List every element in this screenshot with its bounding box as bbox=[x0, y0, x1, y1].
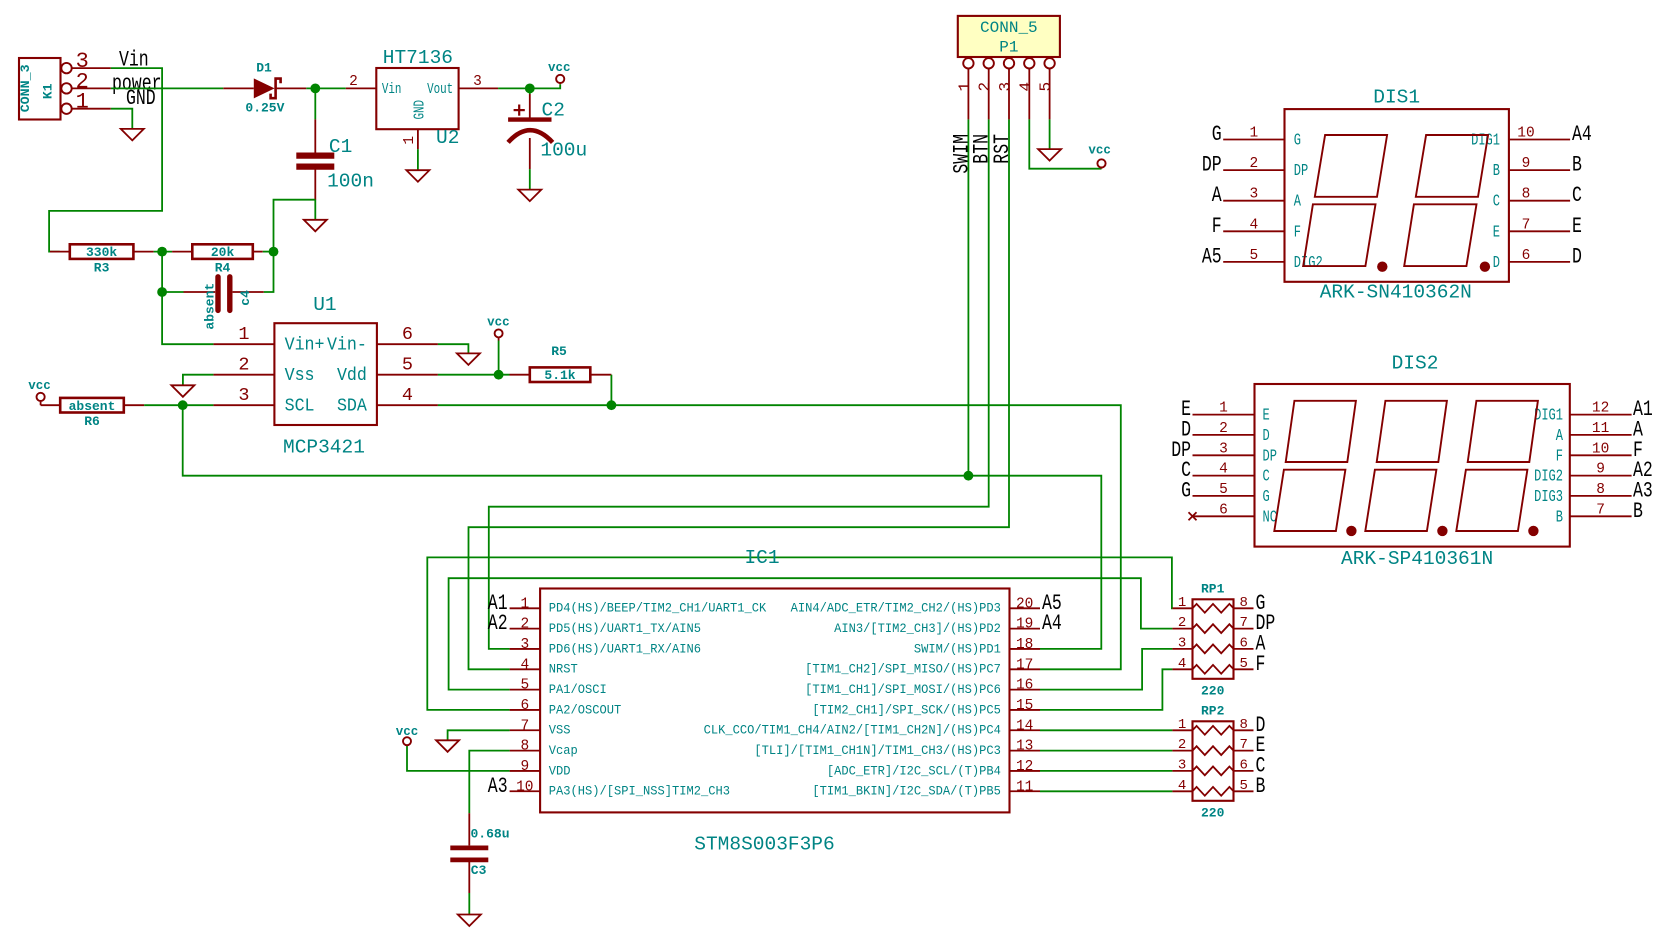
svg-text:vcc: vcc bbox=[548, 61, 571, 75]
svg-text:absent: absent bbox=[203, 283, 218, 330]
svg-text:2: 2 bbox=[1250, 156, 1259, 172]
svg-text:[TLI]/[TIM1_CH1N]/TIM1_CH3/(HS: [TLI]/[TIM1_CH1N]/TIM1_CH3/(HS)PC3 bbox=[754, 744, 1001, 758]
svg-text:220: 220 bbox=[1201, 806, 1225, 821]
svg-text:VDD: VDD bbox=[549, 764, 571, 778]
svg-text:PD5(HS)/UART1_TX/AIN5: PD5(HS)/UART1_TX/AIN5 bbox=[549, 622, 701, 636]
svg-text:E: E bbox=[1572, 214, 1582, 239]
svg-text:19: 19 bbox=[1016, 617, 1033, 633]
svg-text:9: 9 bbox=[1522, 156, 1531, 172]
svg-text:ARK-SN410362N: ARK-SN410362N bbox=[1320, 282, 1472, 304]
svg-text:SWIM/(HS)PD1: SWIM/(HS)PD1 bbox=[914, 642, 1001, 656]
svg-text:SDA: SDA bbox=[337, 396, 367, 417]
svg-text:R4: R4 bbox=[215, 261, 231, 276]
svg-text:11: 11 bbox=[1016, 779, 1033, 795]
svg-text:DIS1: DIS1 bbox=[1373, 87, 1420, 109]
svg-text:RP1: RP1 bbox=[1201, 582, 1225, 597]
svg-text:7: 7 bbox=[1596, 502, 1605, 518]
svg-text:A: A bbox=[1212, 183, 1222, 208]
svg-text:4: 4 bbox=[1017, 82, 1035, 92]
svg-text:8: 8 bbox=[1596, 482, 1605, 498]
svg-text:16: 16 bbox=[1016, 678, 1033, 694]
svg-text:14: 14 bbox=[1016, 718, 1033, 734]
svg-text:D: D bbox=[1263, 427, 1270, 445]
svg-text:4: 4 bbox=[1178, 778, 1186, 794]
svg-text:8: 8 bbox=[1239, 717, 1247, 733]
svg-text:PA2/OSCOUT: PA2/OSCOUT bbox=[549, 703, 622, 717]
svg-text:Vdd: Vdd bbox=[337, 365, 367, 386]
svg-text:A4: A4 bbox=[1572, 122, 1592, 147]
svg-text:DIS2: DIS2 bbox=[1392, 353, 1439, 375]
svg-text:P1: P1 bbox=[999, 39, 1018, 57]
svg-text:F: F bbox=[1212, 214, 1222, 239]
svg-text:DP: DP bbox=[1294, 163, 1308, 181]
svg-text:A: A bbox=[1294, 193, 1302, 211]
svg-text:vcc: vcc bbox=[28, 379, 51, 393]
svg-text:1: 1 bbox=[1178, 595, 1186, 611]
svg-text:DIG3: DIG3 bbox=[1534, 488, 1563, 506]
svg-text:C: C bbox=[1493, 193, 1501, 211]
svg-text:GND: GND bbox=[126, 86, 156, 111]
svg-text:330k: 330k bbox=[86, 245, 117, 260]
svg-text:18: 18 bbox=[1016, 637, 1033, 653]
svg-text:1: 1 bbox=[956, 82, 974, 92]
svg-text:2: 2 bbox=[1178, 737, 1186, 753]
svg-text:12: 12 bbox=[1592, 401, 1609, 417]
svg-text:1: 1 bbox=[1219, 401, 1228, 417]
svg-text:G: G bbox=[1263, 488, 1270, 506]
svg-text:RP2: RP2 bbox=[1201, 704, 1225, 719]
svg-text:6: 6 bbox=[520, 698, 529, 714]
svg-text:R5: R5 bbox=[551, 344, 567, 359]
svg-text:Vin: Vin bbox=[382, 81, 402, 98]
svg-text:Vss: Vss bbox=[285, 365, 315, 386]
svg-text:PA3(HS)/[SPI_NSS]TIM2_CH3: PA3(HS)/[SPI_NSS]TIM2_CH3 bbox=[549, 784, 730, 798]
svg-text:B: B bbox=[1556, 509, 1564, 527]
svg-text:1: 1 bbox=[402, 136, 418, 145]
svg-text:7: 7 bbox=[1239, 615, 1247, 631]
svg-text:4: 4 bbox=[402, 385, 413, 406]
svg-text:1: 1 bbox=[1178, 717, 1186, 733]
svg-text:[TIM2_CH1]/SPI_SCK/(HS)PC5: [TIM2_CH1]/SPI_SCK/(HS)PC5 bbox=[812, 703, 1001, 717]
svg-text:[ADC_ETR]/I2C_SCL/(T)PB4: [ADC_ETR]/I2C_SCL/(T)PB4 bbox=[827, 764, 1001, 778]
svg-text:K1: K1 bbox=[40, 83, 55, 99]
svg-text:AIN4/ADC_ETR/TIM2_CH2/(HS)PD3: AIN4/ADC_ETR/TIM2_CH2/(HS)PD3 bbox=[791, 601, 1001, 615]
svg-text:F: F bbox=[1256, 652, 1266, 677]
svg-text:1: 1 bbox=[76, 90, 89, 115]
svg-text:DP: DP bbox=[1263, 448, 1277, 466]
svg-text:IC1: IC1 bbox=[744, 547, 779, 569]
svg-text:3: 3 bbox=[1219, 441, 1228, 457]
svg-text:5: 5 bbox=[402, 355, 413, 376]
svg-text:RST: RST bbox=[990, 134, 1015, 164]
svg-text:7: 7 bbox=[1239, 737, 1247, 753]
svg-text:U1: U1 bbox=[313, 294, 336, 316]
svg-text:4: 4 bbox=[1219, 462, 1228, 478]
svg-text:10: 10 bbox=[516, 779, 533, 795]
svg-text:8: 8 bbox=[1239, 595, 1247, 611]
svg-text:5: 5 bbox=[1037, 82, 1055, 92]
svg-text:6: 6 bbox=[1522, 248, 1531, 264]
svg-text:B: B bbox=[1493, 163, 1501, 181]
svg-text:4: 4 bbox=[1250, 217, 1259, 233]
svg-text:Vcap: Vcap bbox=[549, 744, 578, 758]
svg-text:G: G bbox=[1212, 122, 1222, 147]
svg-text:E: E bbox=[1493, 224, 1500, 242]
svg-text:HT7136: HT7136 bbox=[383, 47, 453, 69]
svg-text:B: B bbox=[1256, 774, 1266, 799]
svg-text:AIN3/[TIM2_CH3]/(HS)PD2: AIN3/[TIM2_CH3]/(HS)PD2 bbox=[834, 622, 1001, 636]
svg-text:DIG1: DIG1 bbox=[1534, 407, 1563, 425]
svg-text:C3: C3 bbox=[471, 863, 487, 878]
svg-text:CONN_5: CONN_5 bbox=[980, 19, 1038, 37]
svg-text:4: 4 bbox=[520, 657, 529, 673]
svg-text:2: 2 bbox=[976, 82, 994, 92]
svg-text:0.68u: 0.68u bbox=[471, 827, 510, 842]
svg-text:2: 2 bbox=[1219, 421, 1228, 437]
svg-text:Vin-: Vin- bbox=[327, 335, 367, 356]
svg-text:6: 6 bbox=[1239, 757, 1247, 773]
svg-text:8: 8 bbox=[520, 739, 529, 755]
svg-text:C: C bbox=[1572, 183, 1582, 208]
svg-text:Vout: Vout bbox=[427, 81, 453, 98]
svg-text:1: 1 bbox=[520, 596, 529, 612]
svg-text:STM8S003F3P6: STM8S003F3P6 bbox=[694, 834, 834, 856]
svg-text:C2: C2 bbox=[542, 99, 565, 121]
svg-text:PD6(HS)/UART1_RX/AIN6: PD6(HS)/UART1_RX/AIN6 bbox=[549, 642, 701, 656]
svg-text:CLK_CCO/TIM1_CH4/AIN2/[TIM1_CH: CLK_CCO/TIM1_CH4/AIN2/[TIM1_CH2N]/(HS)PC… bbox=[704, 723, 1001, 737]
svg-text:5: 5 bbox=[1239, 778, 1247, 794]
svg-text:F: F bbox=[1294, 224, 1301, 242]
svg-text:20k: 20k bbox=[211, 245, 235, 260]
svg-text:C1: C1 bbox=[329, 136, 352, 158]
svg-text:ARK-SP410361N: ARK-SP410361N bbox=[1341, 548, 1493, 570]
svg-text:G: G bbox=[1294, 132, 1301, 150]
svg-text:vcc: vcc bbox=[396, 725, 419, 739]
svg-text:9: 9 bbox=[1596, 462, 1605, 478]
svg-text:vcc: vcc bbox=[1088, 144, 1111, 158]
svg-text:A3: A3 bbox=[488, 774, 508, 799]
svg-text:DIG2: DIG2 bbox=[1534, 468, 1563, 486]
svg-text:CONN_3: CONN_3 bbox=[18, 64, 33, 112]
svg-text:6: 6 bbox=[1219, 502, 1228, 518]
svg-text:[TIM1_CH1]/SPI_MOSI/(HS)PC6: [TIM1_CH1]/SPI_MOSI/(HS)PC6 bbox=[805, 683, 1001, 697]
svg-text:G: G bbox=[1181, 478, 1191, 503]
svg-text:NRST: NRST bbox=[549, 662, 578, 676]
svg-text:SCL: SCL bbox=[285, 396, 315, 417]
svg-text:5: 5 bbox=[1250, 248, 1259, 264]
svg-text:20: 20 bbox=[1016, 596, 1033, 612]
svg-text:A2: A2 bbox=[488, 611, 508, 636]
svg-text:2: 2 bbox=[349, 74, 358, 90]
svg-text:Vin+: Vin+ bbox=[285, 335, 325, 356]
svg-text:A4: A4 bbox=[1042, 611, 1062, 636]
svg-text:10: 10 bbox=[1517, 126, 1534, 142]
svg-text:GND: GND bbox=[411, 100, 428, 120]
svg-text:2: 2 bbox=[238, 355, 249, 376]
svg-text:2: 2 bbox=[1178, 615, 1186, 631]
svg-text:DP: DP bbox=[1202, 152, 1222, 177]
svg-text:7: 7 bbox=[520, 718, 529, 734]
svg-text:B: B bbox=[1633, 499, 1643, 524]
svg-text:D: D bbox=[1493, 254, 1500, 272]
svg-text:6: 6 bbox=[1239, 635, 1247, 651]
svg-text:5: 5 bbox=[1219, 482, 1228, 498]
svg-text:3: 3 bbox=[473, 74, 482, 90]
svg-text:U2: U2 bbox=[436, 127, 459, 149]
svg-text:R6: R6 bbox=[84, 414, 100, 429]
svg-text:100u: 100u bbox=[540, 140, 587, 162]
svg-text:13: 13 bbox=[1016, 739, 1033, 755]
svg-text:2: 2 bbox=[520, 617, 529, 633]
svg-text:3: 3 bbox=[238, 385, 249, 406]
svg-text:3: 3 bbox=[520, 637, 529, 653]
svg-text:5.1k: 5.1k bbox=[544, 368, 575, 383]
svg-text:R3: R3 bbox=[94, 261, 110, 276]
svg-text:3: 3 bbox=[1178, 635, 1186, 651]
svg-text:8: 8 bbox=[1522, 187, 1531, 203]
svg-text:c4: c4 bbox=[238, 290, 253, 306]
svg-text:10: 10 bbox=[1592, 441, 1609, 457]
svg-text:[TIM1_CH2]/SPI_MISO/(HS)PC7: [TIM1_CH2]/SPI_MISO/(HS)PC7 bbox=[805, 662, 1001, 676]
svg-text:100n: 100n bbox=[327, 171, 374, 193]
svg-text:B: B bbox=[1572, 152, 1582, 177]
svg-text:12: 12 bbox=[1016, 759, 1033, 775]
svg-text:11: 11 bbox=[1592, 421, 1609, 437]
svg-text:vcc: vcc bbox=[487, 316, 510, 330]
svg-text:C: C bbox=[1263, 468, 1271, 486]
svg-text:3: 3 bbox=[997, 82, 1015, 92]
svg-text:DIG2: DIG2 bbox=[1294, 254, 1323, 272]
svg-text:D1: D1 bbox=[256, 61, 272, 76]
svg-text:F: F bbox=[1556, 448, 1563, 466]
svg-text:PD4(HS)/BEEP/TIM2_CH1/UART1_CK: PD4(HS)/BEEP/TIM2_CH1/UART1_CK bbox=[549, 601, 767, 615]
svg-text:absent: absent bbox=[69, 399, 116, 414]
svg-text:A5: A5 bbox=[1202, 244, 1222, 269]
svg-text:3: 3 bbox=[1250, 187, 1259, 203]
svg-text:4: 4 bbox=[1178, 656, 1186, 672]
svg-text:17: 17 bbox=[1016, 657, 1033, 673]
svg-text:1: 1 bbox=[1250, 126, 1259, 142]
svg-text:MCP3421: MCP3421 bbox=[283, 437, 365, 459]
svg-text:7: 7 bbox=[1522, 217, 1531, 233]
svg-text:6: 6 bbox=[402, 324, 413, 345]
svg-text:9: 9 bbox=[520, 759, 529, 775]
svg-text:220: 220 bbox=[1201, 684, 1225, 699]
svg-text:5: 5 bbox=[520, 678, 529, 694]
svg-text:A: A bbox=[1556, 427, 1564, 445]
svg-text:VSS: VSS bbox=[549, 723, 571, 737]
svg-text:E: E bbox=[1263, 407, 1270, 425]
svg-text:15: 15 bbox=[1016, 698, 1033, 714]
svg-text:3: 3 bbox=[1178, 757, 1186, 773]
svg-text:PA1/OSCI: PA1/OSCI bbox=[549, 683, 607, 697]
svg-text:[TIM1_BKIN]/I2C_SDA/(T)PB5: [TIM1_BKIN]/I2C_SDA/(T)PB5 bbox=[812, 784, 1001, 798]
svg-text:5: 5 bbox=[1239, 656, 1247, 672]
svg-text:0.25V: 0.25V bbox=[245, 101, 284, 116]
svg-text:1: 1 bbox=[238, 324, 249, 345]
svg-text:D: D bbox=[1572, 244, 1582, 269]
